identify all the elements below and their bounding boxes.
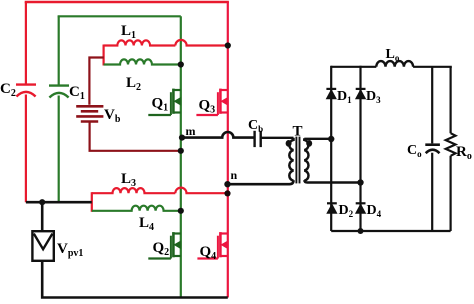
svg-text:Q4: Q4 [200, 244, 217, 262]
wire red rail (drain-source bus Q3/Q4) [227, 2, 229, 298]
wire green rail (drain-source bus Q1/Q2) [180, 16, 182, 297]
wire red left border upper [25, 2, 27, 84]
svg-text:m: m [186, 124, 196, 138]
wire green left border lower [58, 96, 60, 203]
svg-text:Vb: Vb [104, 107, 121, 125]
svg-text:L1: L1 [121, 23, 136, 41]
node junction L3 to red rail [224, 190, 230, 196]
wire transformer secondary bottom to D3-D4 leg [304, 180, 360, 182]
svg-text:Q3: Q3 [199, 98, 216, 116]
inductor L4 [92, 206, 181, 233]
inductor L1 [104, 23, 176, 46]
svg-text:C1: C1 [69, 84, 85, 102]
wire node m to Cb with crossover hump over red rail [181, 132, 254, 138]
svg-text:T: T [293, 124, 303, 140]
wire green top border [59, 16, 181, 17]
svg-text:D1: D1 [337, 89, 352, 105]
svg-text:C2: C2 [0, 81, 16, 99]
svg-text:Ro: Ro [456, 144, 472, 162]
battery Vb [76, 106, 121, 125]
wire output bottom rail [331, 230, 450, 232]
wire Cb to transformer primary [261, 137, 294, 139]
wire red stub joining L1/L2 left ends [102, 45, 104, 66]
capacitor C1 [49, 84, 85, 102]
diode D4 [356, 203, 366, 213]
svg-text:Lo: Lo [386, 47, 400, 63]
svg-text:n: n [231, 168, 238, 182]
node junction battery to green rail [178, 148, 184, 154]
svg-text:D2: D2 [339, 203, 354, 219]
svg-text:Vpv1: Vpv1 [57, 241, 83, 259]
diode D1 [326, 89, 336, 99]
resistor Ro [446, 67, 472, 231]
capacitor Co [407, 67, 440, 231]
PV source Vpv1 [32, 231, 83, 261]
wire red top border [25, 1, 229, 4]
wire output top rail [331, 66, 376, 68]
svg-text:L2: L2 [126, 75, 141, 93]
svg-text:Co: Co [407, 143, 422, 159]
wire red left border lower [25, 95, 27, 203]
transformer secondary polarity dot [306, 140, 312, 147]
wire PV bottom lead and bottom bus [42, 261, 228, 298]
inductor L2 [104, 59, 181, 93]
wire node n to transformer primary bottom [228, 180, 294, 184]
transformer T core [296, 137, 299, 184]
wire L1 crossover hump over green rail [175, 40, 227, 46]
wire bridge right leg [359, 66, 361, 231]
node n junction dot [224, 181, 230, 187]
node junction L2 to green rail [178, 61, 184, 67]
svg-text:Q1: Q1 [152, 96, 169, 114]
capacitor Cb [248, 118, 263, 147]
wire output top rail right [413, 66, 452, 68]
diode D3 [356, 89, 366, 99]
wire battery negative lead [90, 123, 181, 151]
diode D2 [327, 203, 337, 213]
wire green left border upper [58, 16, 60, 85]
node junction secondary top to D1-D2 leg [328, 136, 334, 142]
transistor Q2 [148, 232, 181, 258]
node junction L4 to green rail [178, 208, 184, 214]
wire left black bus [26, 201, 92, 204]
inductor L3 [92, 171, 176, 193]
wire battery positive lead [89, 58, 103, 105]
transformer primary polarity dot [286, 140, 292, 147]
node junction PV top tee [39, 199, 45, 205]
transistor Q3 [196, 89, 227, 115]
node junction L1 to red rail [225, 42, 231, 48]
inductor Lo [376, 47, 413, 67]
wire bridge left leg [330, 66, 332, 231]
wire transformer secondary top to bridge [304, 138, 331, 140]
transformer T secondary winding [304, 138, 308, 180]
svg-text:D4: D4 [367, 203, 382, 219]
capacitor C2 [0, 81, 36, 99]
svg-text:Cb: Cb [248, 118, 263, 134]
transistor Q4 [197, 232, 227, 258]
transformer T primary winding [289, 138, 293, 181]
svg-text:Q2: Q2 [153, 240, 170, 258]
node junction secondary bottom to D3-D4 leg [357, 179, 363, 185]
node junction D4 leg to bottom rail [358, 228, 364, 234]
wire L3/L4 left stub [91, 192, 93, 212]
wire L3 crossover hump over green rail [175, 188, 228, 194]
wire PV top lead [41, 202, 44, 231]
svg-text:L4: L4 [139, 215, 154, 233]
svg-text:L3: L3 [121, 171, 136, 189]
svg-text:D3: D3 [366, 89, 381, 105]
transistor Q1 [148, 89, 181, 115]
node m junction dot [179, 135, 185, 141]
